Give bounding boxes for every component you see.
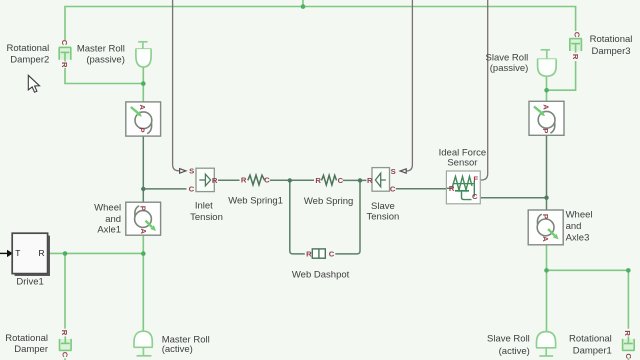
- svg-text:Rotational: Rotational: [590, 34, 633, 45]
- svg-text:Sensor: Sensor: [447, 158, 477, 169]
- svg-text:R: R: [306, 250, 312, 259]
- svg-text:P: P: [541, 128, 550, 133]
- svg-text:Master Roll: Master Roll: [77, 44, 125, 55]
- svg-text:Web Dashpot: Web Dashpot: [292, 270, 350, 281]
- svg-text:Tension: Tension: [190, 212, 223, 223]
- svg-text:R: R: [38, 248, 44, 258]
- svg-text:Rotational: Rotational: [7, 43, 50, 54]
- svg-text:A: A: [541, 104, 550, 110]
- svg-text:Damper: Damper: [14, 344, 48, 355]
- svg-text:S: S: [391, 167, 396, 176]
- svg-text:Ideal Force: Ideal Force: [439, 147, 487, 158]
- svg-text:C: C: [189, 184, 195, 193]
- svg-text:F: F: [473, 175, 478, 184]
- svg-text:Axle3: Axle3: [566, 232, 590, 243]
- svg-text:C: C: [338, 176, 344, 185]
- svg-text:and: and: [105, 214, 121, 225]
- svg-text:(active): (active): [162, 344, 193, 355]
- svg-text:R: R: [241, 176, 247, 185]
- svg-text:R: R: [623, 330, 632, 336]
- svg-text:C: C: [572, 32, 581, 38]
- svg-text:P: P: [138, 206, 147, 211]
- svg-text:(active): (active): [499, 346, 530, 357]
- svg-text:C: C: [60, 40, 69, 46]
- svg-text:R: R: [571, 54, 580, 60]
- svg-text:Wheel: Wheel: [94, 202, 121, 213]
- svg-text:Tension: Tension: [367, 211, 400, 222]
- svg-text:Rotational: Rotational: [5, 333, 48, 344]
- svg-text:(passive): (passive): [490, 63, 529, 74]
- svg-text:R: R: [367, 176, 373, 185]
- svg-text:R: R: [212, 176, 218, 185]
- svg-text:P: P: [137, 127, 146, 132]
- svg-text:Slave Roll: Slave Roll: [487, 334, 530, 345]
- svg-text:T: T: [15, 248, 20, 258]
- svg-text:Slave Roll: Slave Roll: [486, 52, 529, 63]
- svg-text:Axle1: Axle1: [97, 224, 121, 235]
- svg-text:C: C: [329, 250, 335, 259]
- svg-text:S: S: [189, 167, 194, 176]
- svg-text:Drive1: Drive1: [16, 276, 43, 287]
- svg-text:R: R: [449, 184, 455, 193]
- svg-text:C: C: [61, 352, 70, 358]
- svg-text:Damper3: Damper3: [591, 46, 630, 57]
- svg-text:C: C: [390, 185, 396, 194]
- svg-text:(passive): (passive): [86, 55, 125, 66]
- svg-text:P: P: [541, 214, 550, 219]
- svg-text:and: and: [566, 221, 582, 232]
- svg-text:Damper1: Damper1: [573, 345, 612, 356]
- svg-text:A: A: [139, 228, 148, 234]
- svg-text:Rotational: Rotational: [569, 334, 612, 345]
- svg-text:Web Spring1: Web Spring1: [228, 195, 283, 206]
- svg-text:C: C: [624, 353, 633, 359]
- svg-text:Wheel: Wheel: [566, 210, 593, 221]
- svg-text:R: R: [60, 62, 69, 68]
- svg-text:Web Spring: Web Spring: [304, 196, 353, 207]
- svg-text:C: C: [264, 176, 270, 185]
- svg-text:A: A: [138, 104, 147, 110]
- svg-text:R: R: [60, 330, 69, 336]
- svg-text:A: A: [541, 236, 550, 242]
- svg-text:Damper2: Damper2: [10, 54, 49, 65]
- svg-text:R: R: [315, 176, 321, 185]
- svg-text:C: C: [472, 192, 478, 201]
- svg-text:Inlet: Inlet: [195, 200, 213, 211]
